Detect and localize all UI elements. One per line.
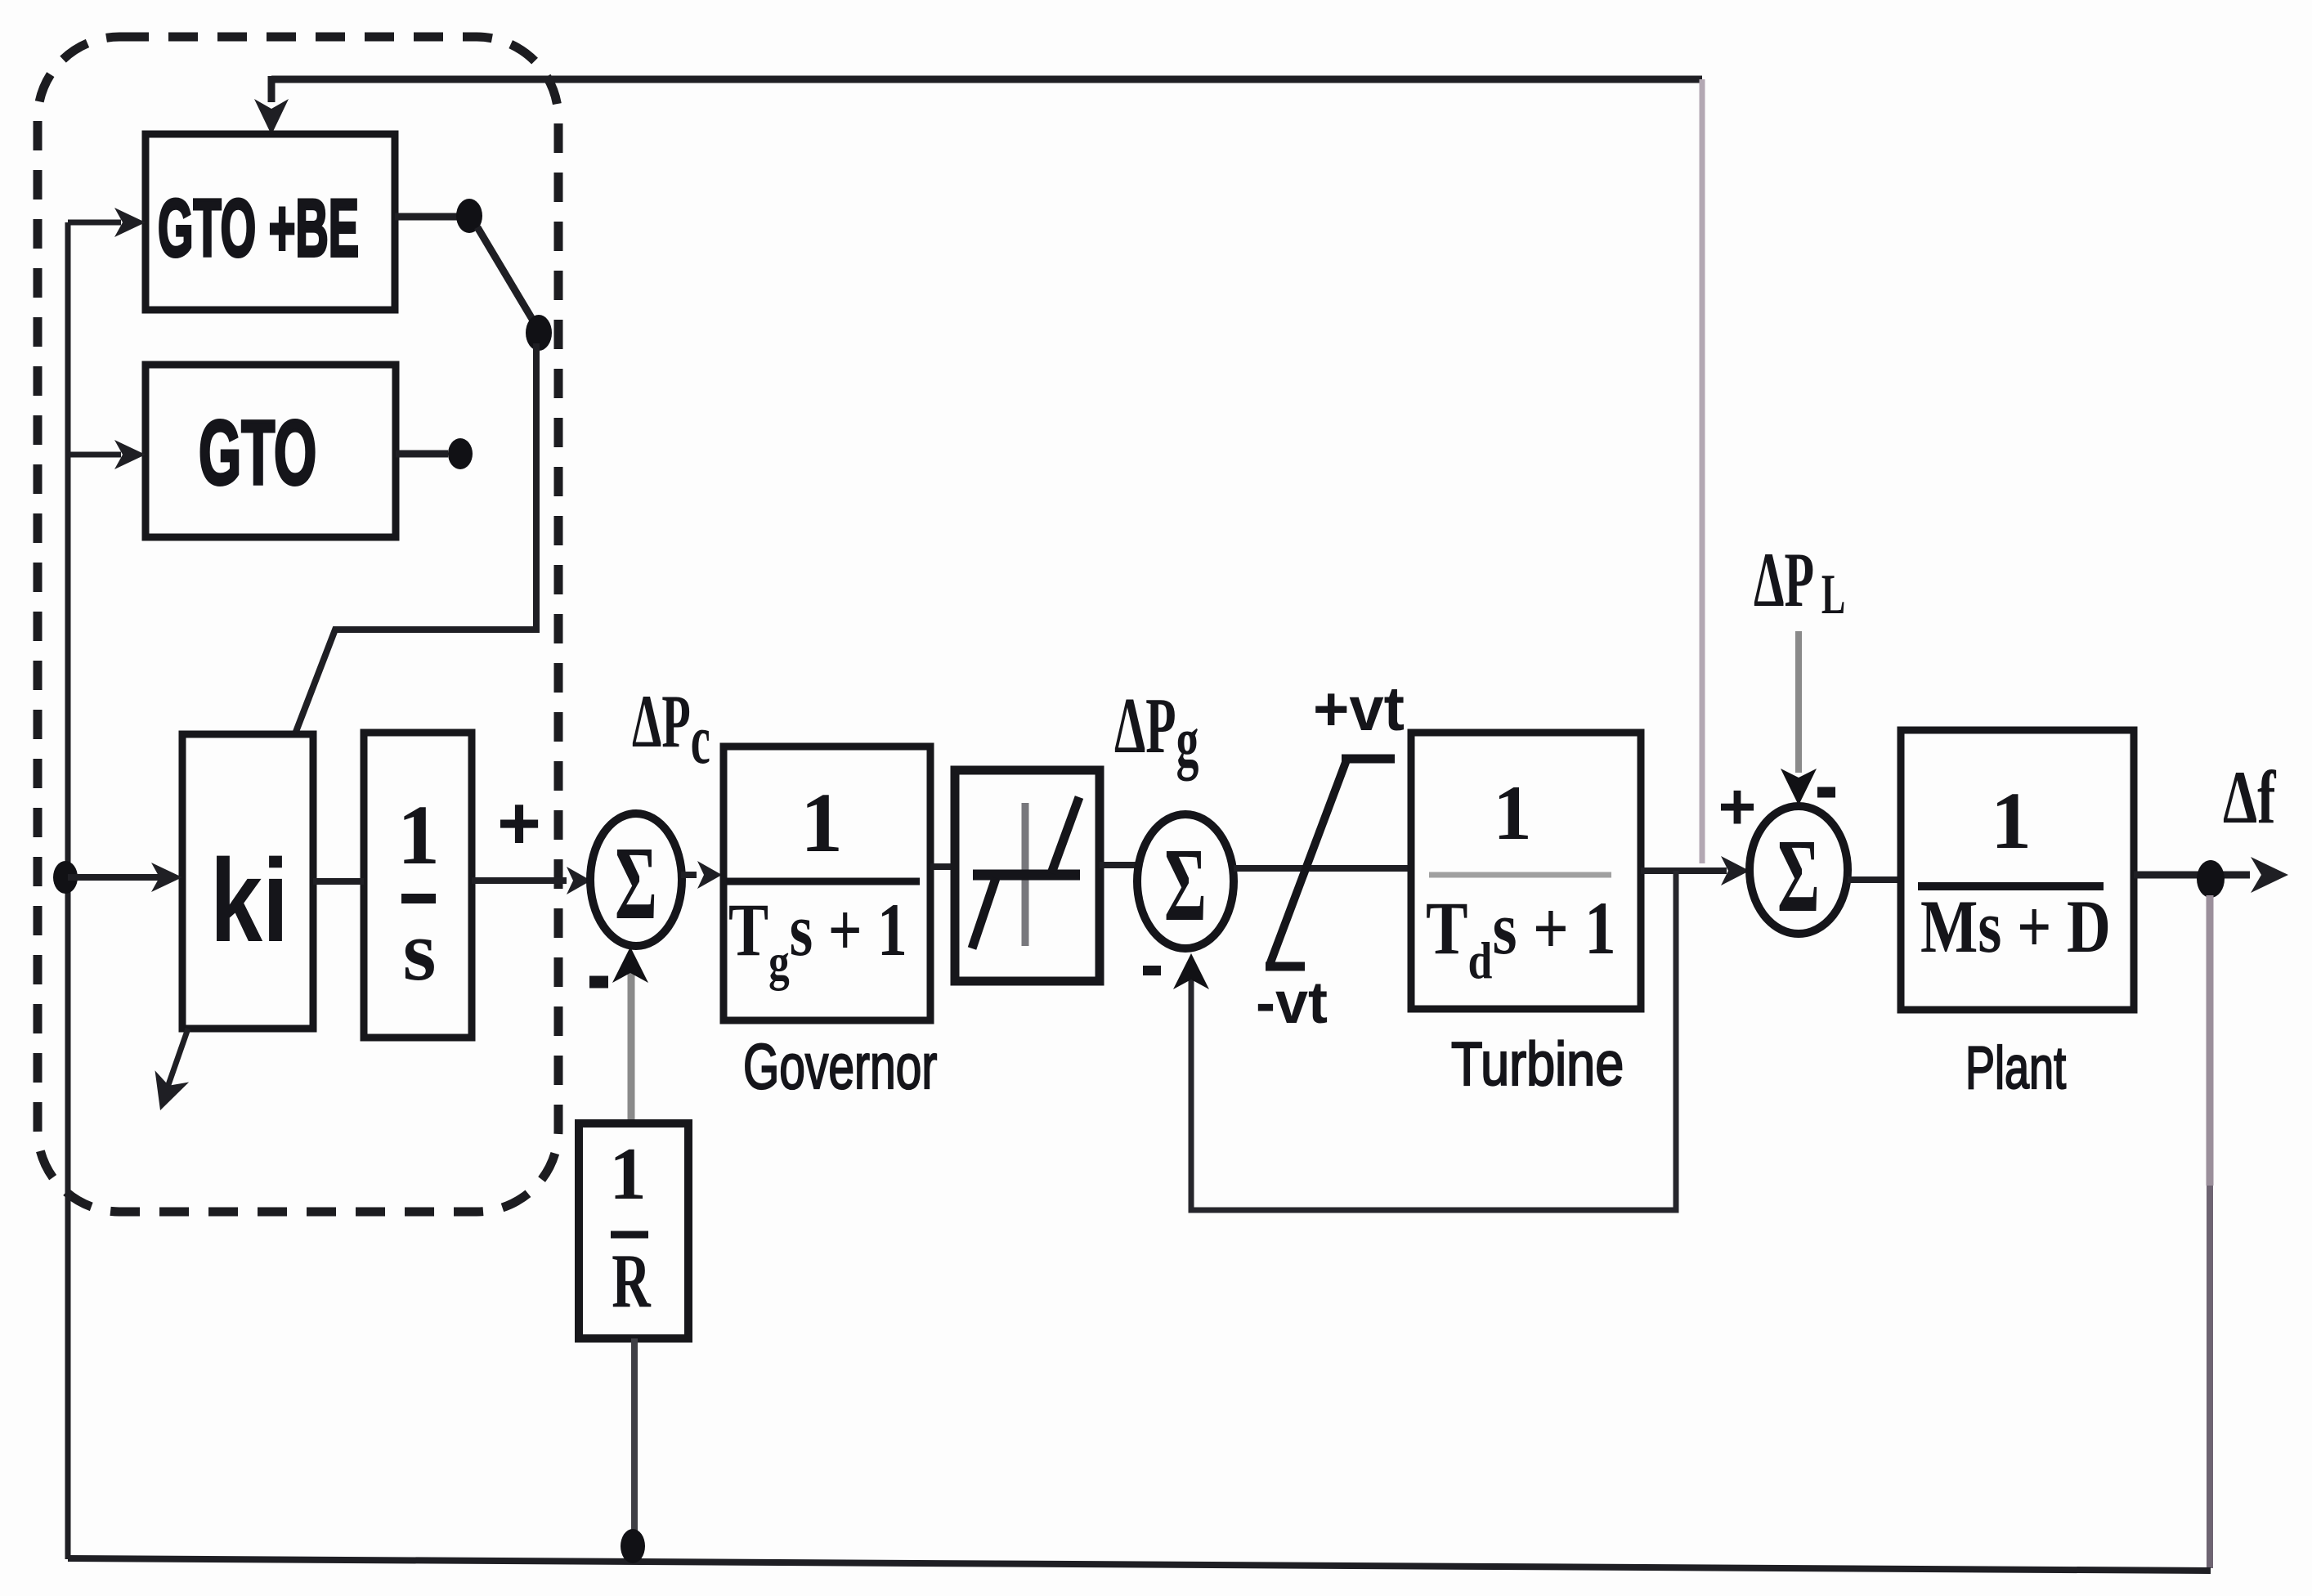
svg-text:GTO +BE: GTO +BE [158,183,359,274]
node output junction [2197,860,2225,898]
wire sum2 to turbine [1234,865,1411,872]
block droop 1/R [579,1123,688,1338]
label dPc [632,679,710,778]
svg-text:Governor: Governor [743,1031,937,1102]
wire saturation to sum2 [1100,862,1137,868]
wire top feedback horizontal [271,76,1702,83]
wire GTO+BE output [395,213,458,221]
wire turbine to sum3 [1641,867,1727,874]
block saturation limiter [955,770,1100,981]
wire 1/R to sum1 [628,969,635,1123]
svg-text:-vt: -vt [1256,971,1328,1036]
label Turbine [1451,1029,1624,1098]
svg-text:ki: ki [210,835,289,966]
wire ki to 1/s [313,878,364,885]
svg-text:R: R [612,1239,652,1324]
summer sum1 [590,814,682,946]
node input junction [53,861,78,894]
svg-text:GTO: GTO [199,403,316,504]
svg-text:Δf: Δf [2223,756,2276,840]
wire top feedback vertical light [1700,79,1705,863]
wire left vertical feedback [65,222,71,1559]
wire switch pole to ki [294,343,536,736]
svg-text:1: 1 [609,1132,647,1215]
svg-text:Σ: Σ [615,826,657,942]
svg-text:Σ: Σ [1164,827,1207,944]
wire feedback to sum2 [1191,871,1676,1210]
svg-text:Σ: Σ [1777,818,1820,935]
label minus sum3 [1817,787,1835,798]
node switch pole [526,315,552,351]
wire into GTO+BE [68,220,121,226]
svg-text:1: 1 [1493,769,1532,856]
svg-text:1: 1 [397,788,440,882]
block plant [1901,730,2134,1010]
wire sum1 to governor [681,872,697,878]
block ki [182,734,313,1029]
wire sum3 to plant [1848,876,1901,883]
label dPL [1754,537,1845,625]
label minus sum2 [1143,966,1161,975]
svg-text:s: s [403,903,437,998]
svg-text:1: 1 [800,776,843,870]
block integrator 1/s [364,733,472,1038]
label Governor [743,1031,937,1102]
block GTO [146,365,396,537]
wire 1/R down to bottom [631,1338,638,1558]
block turbine [1411,733,1641,1009]
wire bottom feedback [68,1558,2211,1571]
svg-text:+vt: +vt [1313,675,1405,744]
node switch contact a [456,199,482,233]
node switch contact b [448,438,473,469]
wire into GTO [68,452,121,458]
svg-text:Plant: Plant [1965,1034,2066,1101]
svg-text:1: 1 [1991,775,2032,866]
label df [2223,756,2276,840]
svg-text:Turbine: Turbine [1451,1029,1624,1098]
wire into ki [68,874,159,881]
block GTO+BE [146,134,395,310]
node bottom junction [621,1529,645,1563]
label minus sum1 [589,976,608,989]
wire GTO output [396,451,448,458]
wire dPL arrow [1795,631,1802,773]
wire governor to saturation [930,863,955,870]
summer sum3 [1750,806,1848,935]
svg-text:+: + [497,782,541,865]
wire switch blade [477,227,533,321]
dashed controller boundary [38,37,558,1212]
block governor [724,746,930,1020]
wire 1/s to sum1 [472,877,567,884]
svg-text:Ms + D: Ms + D [1920,885,2111,969]
label dPg [1114,682,1199,781]
wire df feedback down [2207,895,2214,1186]
wire ki stray arrow [164,1029,188,1096]
summer sum2 [1137,814,1234,948]
wire arrow into GTO+BE top [268,76,276,102]
svg-text:+: + [1718,770,1757,843]
wire plant output [2134,872,2250,879]
label Plant [1965,1034,2066,1101]
rate limiter vt symbol [1266,758,1395,966]
